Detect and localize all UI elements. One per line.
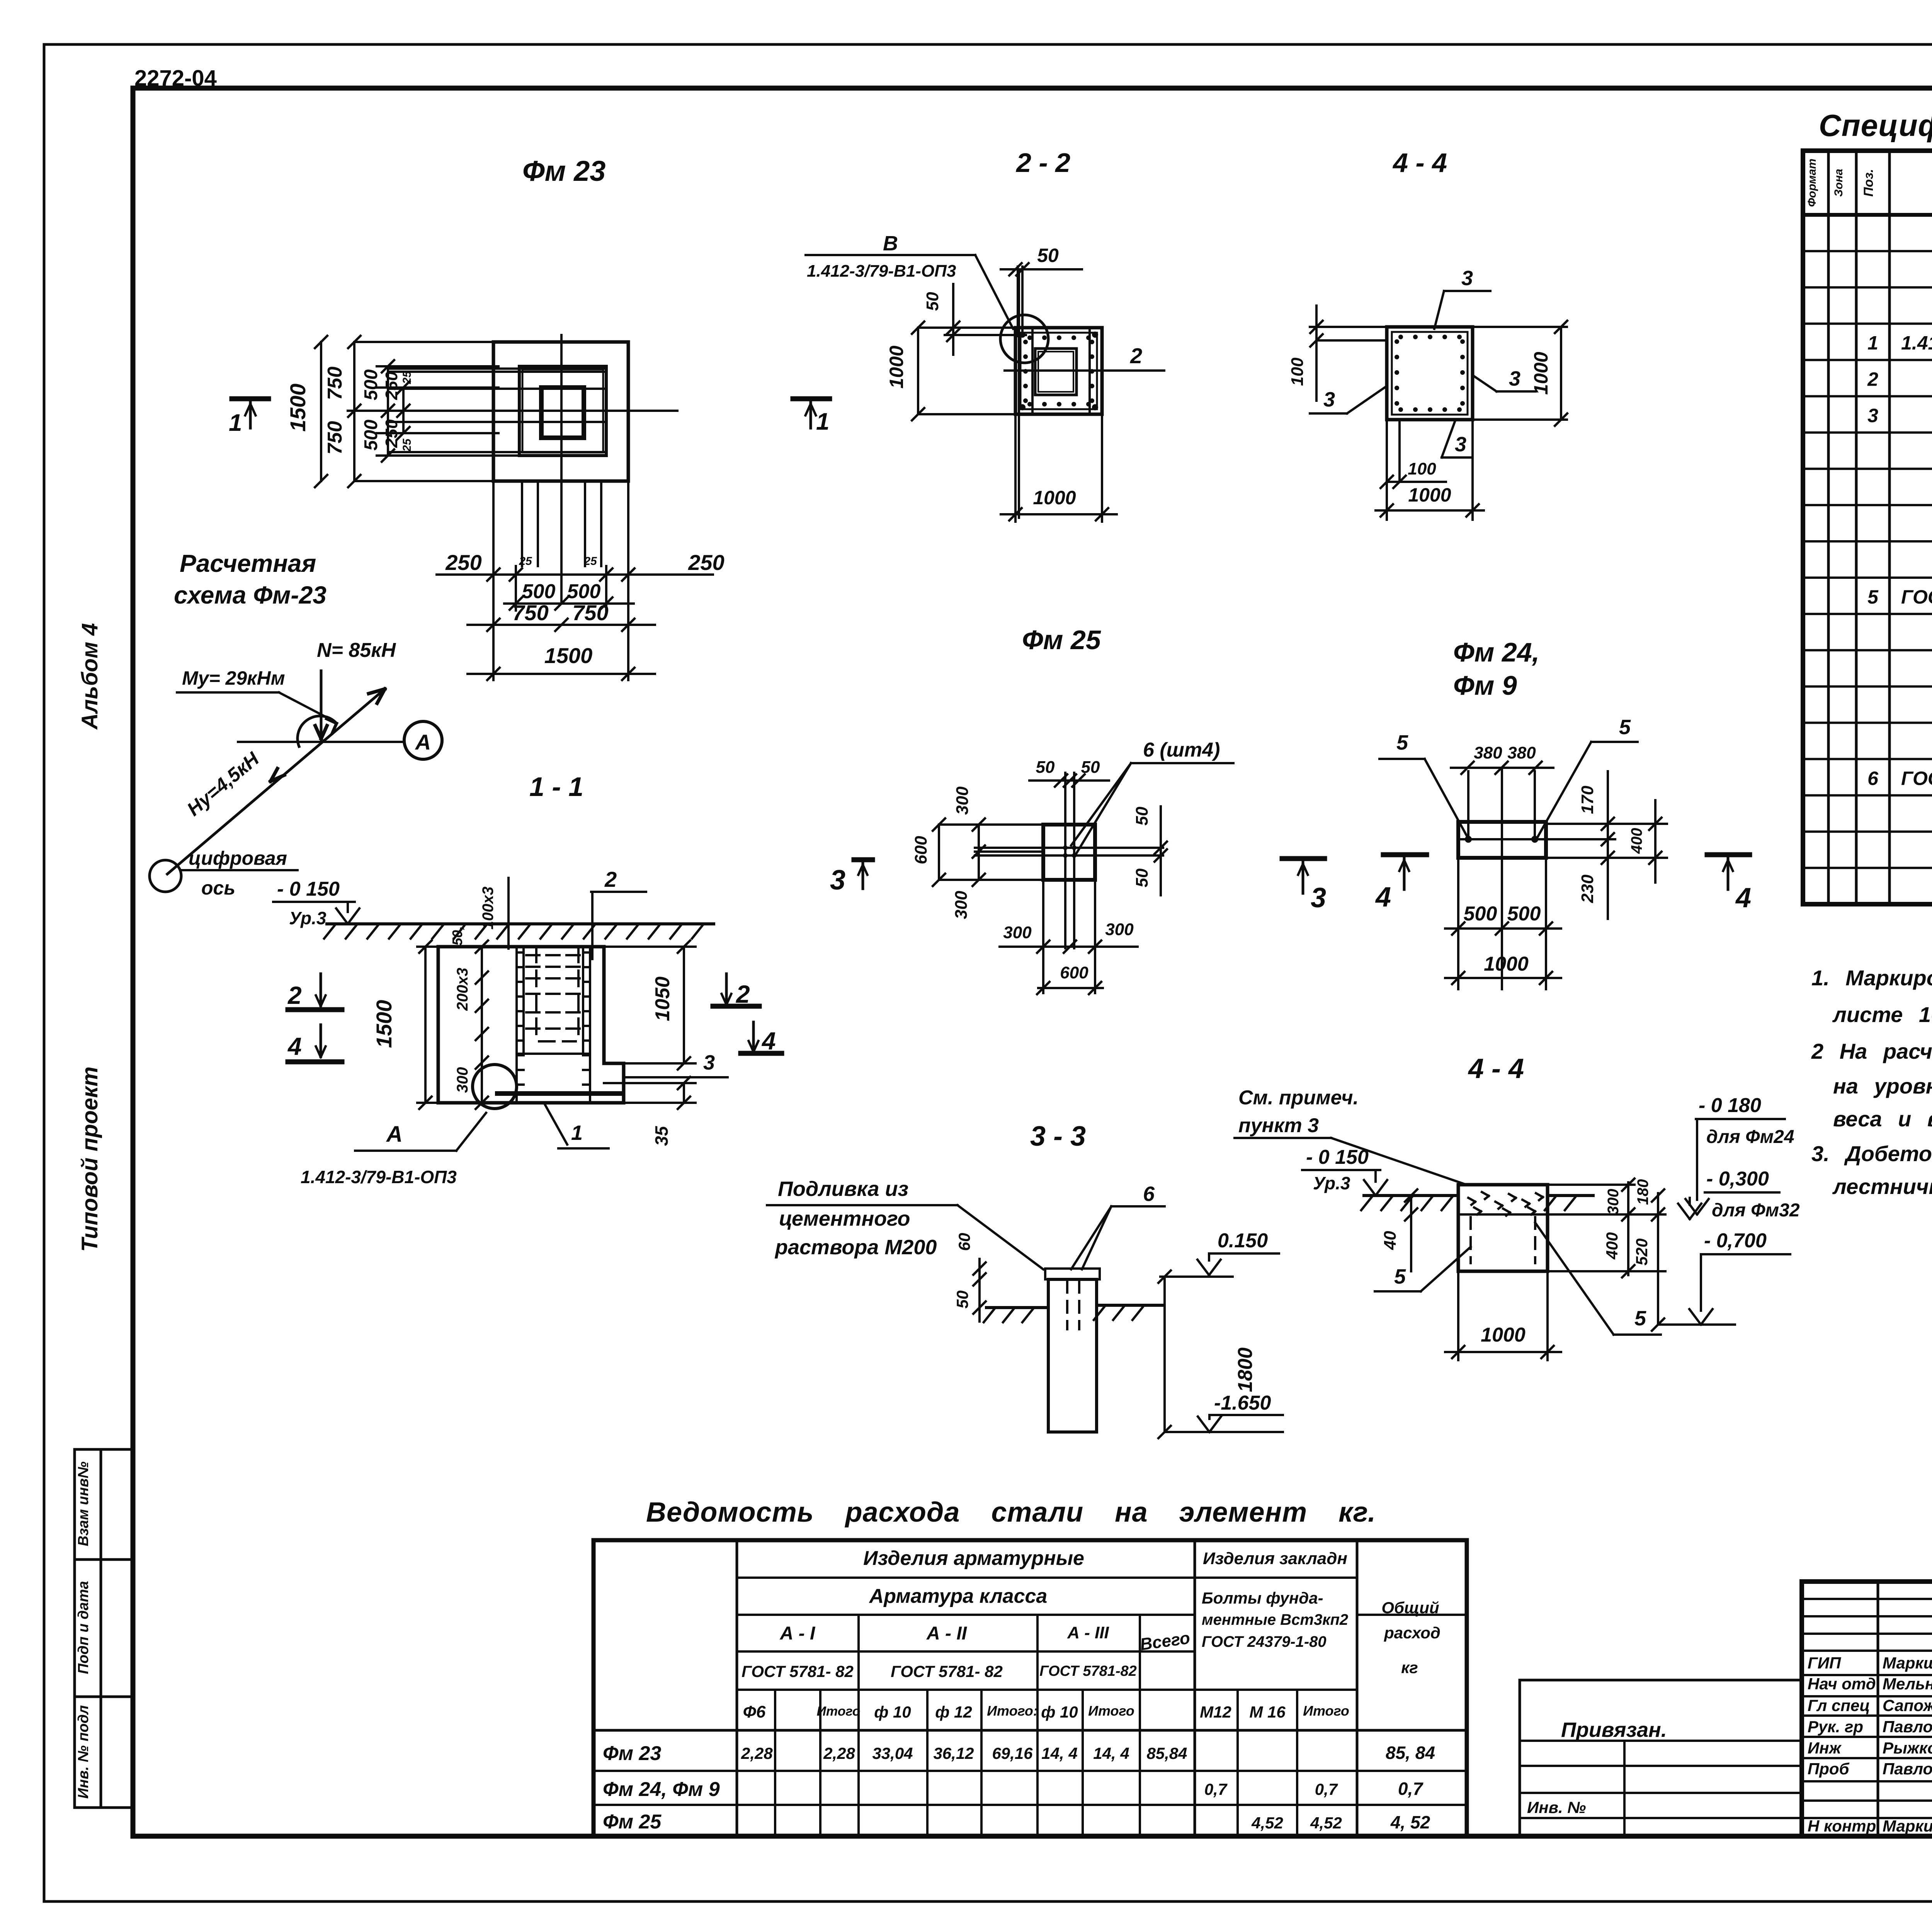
svg-text:4: 4 xyxy=(287,1032,302,1060)
svg-text:М12: М12 xyxy=(1200,1703,1231,1721)
svg-text:А - I: А - I xyxy=(780,1623,816,1644)
svg-text:100: 100 xyxy=(1288,357,1307,386)
svg-text:25: 25 xyxy=(583,555,597,568)
svg-text:250: 250 xyxy=(445,550,481,575)
svg-text:1000: 1000 xyxy=(1408,484,1451,506)
svg-text:Изделия закладн: Изделия закладн xyxy=(1203,1549,1347,1568)
svg-text:60: 60 xyxy=(955,1233,973,1251)
svg-text:2272-04: 2272-04 xyxy=(134,66,217,91)
svg-text:Нач отд: Нач отд xyxy=(1808,1675,1876,1693)
svg-text:Фм 25: Фм 25 xyxy=(603,1811,662,1833)
svg-text:3: 3 xyxy=(1509,367,1520,390)
svg-text:Н контр: Н контр xyxy=(1808,1817,1876,1835)
svg-text:3. Добетонирование произвест: 3. Добетонирование произвести после монт… xyxy=(1811,1141,1932,1166)
svg-text:300: 300 xyxy=(1605,1189,1622,1215)
svg-text:Инв. №: Инв. № xyxy=(1527,1798,1586,1816)
svg-text:ГОСТ 24379.1- 80: ГОСТ 24379.1- 80 xyxy=(1901,767,1932,789)
svg-text:1000: 1000 xyxy=(1530,352,1552,395)
svg-text:1. Маркировочный план фундам: 1. Маркировочный план фундаментов дан на xyxy=(1811,966,1932,990)
svg-text:Инв. № подл: Инв. № подл xyxy=(75,1705,92,1799)
svg-text:50: 50 xyxy=(1133,868,1151,887)
svg-text:520: 520 xyxy=(1633,1238,1651,1265)
svg-text:Гл спец: Гл спец xyxy=(1808,1696,1870,1714)
svg-text:Формат: Формат xyxy=(1806,158,1818,207)
svg-text:25: 25 xyxy=(401,438,413,452)
svg-text:50: 50 xyxy=(1037,245,1059,266)
svg-text:ф 10: ф 10 xyxy=(1041,1703,1078,1721)
svg-text:Расчетная: Расчетная xyxy=(180,549,316,577)
svg-text:Общий: Общий xyxy=(1381,1599,1439,1617)
svg-text:цифровая: цифровая xyxy=(189,847,287,869)
svg-text:ф 12: ф 12 xyxy=(935,1703,972,1721)
svg-text:Мельников: Мельников xyxy=(1883,1675,1932,1693)
svg-text:750: 750 xyxy=(324,367,346,400)
svg-text:600: 600 xyxy=(912,836,930,864)
svg-text:500: 500 xyxy=(1507,903,1541,925)
svg-text:1500: 1500 xyxy=(372,1000,396,1048)
svg-text:6: 6 xyxy=(1867,767,1879,789)
svg-text:Павлова: Павлова xyxy=(1883,1718,1932,1736)
svg-text:85, 84: 85, 84 xyxy=(1386,1743,1435,1763)
svg-text:1.412-3/79-В1-ОП3: 1.412-3/79-В1-ОП3 xyxy=(807,262,956,281)
svg-text:ГОСТ 5781- 82: ГОСТ 5781- 82 xyxy=(891,1662,1003,1680)
svg-text:4: 4 xyxy=(761,1027,776,1055)
svg-text:кг: кг xyxy=(1401,1658,1418,1677)
svg-text:ГОСТ 5781-82: ГОСТ 5781-82 xyxy=(1039,1663,1137,1679)
svg-text:3: 3 xyxy=(703,1051,715,1074)
svg-text:200х3: 200х3 xyxy=(454,968,471,1011)
svg-text:Болты фунда-: Болты фунда- xyxy=(1202,1589,1323,1607)
svg-text:- 0,300: - 0,300 xyxy=(1706,1168,1769,1190)
svg-text:на уровне верха фундамента,: на уровне верха фундамента, без учета со… xyxy=(1833,1074,1932,1098)
svg-text:1: 1 xyxy=(1867,332,1878,354)
svg-text:Типовой проект: Типовой проект xyxy=(77,1066,102,1252)
svg-text:А: А xyxy=(415,730,431,754)
svg-text:1: 1 xyxy=(229,410,242,436)
svg-text:50: 50 xyxy=(1081,758,1100,777)
svg-text:Фм 23: Фм 23 xyxy=(603,1742,661,1765)
svg-text:400: 400 xyxy=(1628,828,1645,854)
svg-text:2: 2 xyxy=(604,867,617,891)
svg-text:750: 750 xyxy=(512,600,548,625)
svg-text:50: 50 xyxy=(923,292,942,311)
svg-text:для Фм32: для Фм32 xyxy=(1712,1200,1800,1221)
svg-text:1000: 1000 xyxy=(1481,1324,1526,1346)
svg-text:500: 500 xyxy=(361,420,381,451)
svg-text:-1.650: -1.650 xyxy=(1214,1392,1271,1414)
svg-text:380: 380 xyxy=(1474,743,1502,762)
svg-text:Спецификация фундамента Фм23: Спецификация фундамента Фм23; Фм24,Фм25 xyxy=(1819,108,1932,143)
svg-text:ГИП: ГИП xyxy=(1808,1654,1841,1672)
svg-text:Подп и дата: Подп и дата xyxy=(75,1581,92,1674)
svg-text:100х3: 100х3 xyxy=(480,886,497,929)
svg-text:Фм 25: Фм 25 xyxy=(1022,625,1101,655)
svg-text:2 - 2: 2 - 2 xyxy=(1015,148,1070,178)
svg-text:Ф6: Ф6 xyxy=(743,1702,766,1721)
svg-text:- 0 150: - 0 150 xyxy=(1306,1146,1369,1168)
svg-text:5: 5 xyxy=(1619,716,1631,739)
svg-text:300: 300 xyxy=(952,891,971,919)
svg-text:2,28: 2,28 xyxy=(741,1744,773,1762)
svg-text:Рыжкова: Рыжкова xyxy=(1883,1739,1932,1757)
svg-text:50: 50 xyxy=(1133,806,1151,825)
svg-text:5: 5 xyxy=(1396,731,1408,754)
svg-text:380: 380 xyxy=(1507,743,1536,762)
svg-text:170: 170 xyxy=(1578,786,1597,814)
svg-text:0.150: 0.150 xyxy=(1218,1230,1268,1252)
svg-text:2: 2 xyxy=(736,980,750,1008)
svg-text:5: 5 xyxy=(1867,586,1879,608)
svg-text:Павлова: Павлова xyxy=(1883,1760,1932,1778)
svg-text:1500: 1500 xyxy=(544,643,593,668)
svg-text:Изделия арматурные: Изделия арматурные xyxy=(863,1547,1084,1570)
svg-text:3 - 3: 3 - 3 xyxy=(1030,1121,1086,1152)
svg-text:пункт 3: пункт 3 xyxy=(1238,1114,1319,1137)
svg-text:Ур.3: Ур.3 xyxy=(289,908,327,928)
svg-text:50: 50 xyxy=(953,1291,971,1309)
svg-text:1000: 1000 xyxy=(886,345,907,388)
svg-text:Поз.: Поз. xyxy=(1861,169,1876,197)
svg-text:ментные Вст3кп2: ментные Вст3кп2 xyxy=(1202,1611,1348,1628)
svg-text:3: 3 xyxy=(1323,388,1335,411)
svg-text:4: 4 xyxy=(1375,882,1391,913)
svg-text:50: 50 xyxy=(1036,758,1055,777)
svg-text:250: 250 xyxy=(382,371,401,400)
svg-text:схема Фм-23: схема Фм-23 xyxy=(174,581,327,609)
svg-text:69,16: 69,16 xyxy=(992,1744,1033,1762)
svg-text:1: 1 xyxy=(571,1121,583,1145)
svg-text:А - III: А - III xyxy=(1067,1623,1109,1642)
svg-text:6 (шт4): 6 (шт4) xyxy=(1143,739,1220,761)
svg-text:Взам инв№: Взам инв№ xyxy=(75,1461,92,1546)
svg-text:ГОСТ 24379,1- 80: ГОСТ 24379,1- 80 xyxy=(1901,586,1932,608)
svg-text:3: 3 xyxy=(1867,405,1878,426)
svg-text:для Фм24: для Фм24 xyxy=(1706,1127,1794,1147)
svg-text:1.410-3 В.1: 1.410-3 В.1 xyxy=(1901,332,1932,354)
svg-text:300: 300 xyxy=(454,1067,471,1093)
svg-text:Фм 24,: Фм 24, xyxy=(1453,637,1539,667)
svg-text:4,52: 4,52 xyxy=(1251,1814,1283,1832)
svg-text:Арматура класса: Арматура класса xyxy=(869,1585,1048,1607)
svg-text:N= 85кН: N= 85кН xyxy=(317,639,396,662)
svg-text:1 - 1: 1 - 1 xyxy=(529,772,583,802)
svg-text:250: 250 xyxy=(382,419,401,448)
svg-text:2 На расчетной схеме указана: 2 На расчетной схеме указана нормативная… xyxy=(1811,1039,1932,1063)
svg-text:4 - 4: 4 - 4 xyxy=(1392,148,1447,178)
svg-text:Итого: Итого xyxy=(1088,1703,1134,1719)
svg-text:Подливка из: Подливка из xyxy=(778,1177,908,1201)
svg-text:3: 3 xyxy=(1311,883,1326,913)
svg-text:Проб: Проб xyxy=(1808,1760,1850,1778)
svg-text:Фм 9: Фм 9 xyxy=(1453,670,1517,701)
svg-text:14, 4: 14, 4 xyxy=(1093,1744,1129,1762)
svg-text:4 - 4: 4 - 4 xyxy=(1468,1053,1524,1084)
svg-text:14, 4: 14, 4 xyxy=(1041,1744,1077,1762)
svg-text:цементного: цементного xyxy=(779,1207,910,1230)
svg-text:25: 25 xyxy=(401,371,413,384)
svg-text:М 16: М 16 xyxy=(1249,1703,1286,1721)
svg-text:250: 250 xyxy=(688,550,724,575)
svg-text:180: 180 xyxy=(1634,1179,1651,1205)
svg-text:100: 100 xyxy=(1408,459,1436,478)
svg-text:Рук. гр: Рук. гр xyxy=(1808,1718,1863,1736)
svg-text:- 0,700: - 0,700 xyxy=(1704,1230,1767,1252)
svg-text:300: 300 xyxy=(953,786,972,815)
svg-text:ГОСТ 24379-1-80: ГОСТ 24379-1-80 xyxy=(1202,1633,1327,1650)
svg-text:ф 10: ф 10 xyxy=(874,1703,911,1721)
svg-text:6: 6 xyxy=(1143,1182,1155,1206)
svg-text:4: 4 xyxy=(1735,883,1751,913)
svg-text:0,7: 0,7 xyxy=(1204,1780,1228,1798)
svg-text:3: 3 xyxy=(830,865,845,896)
svg-text:500: 500 xyxy=(1464,903,1497,925)
svg-text:Фм 24, Фм 9: Фм 24, Фм 9 xyxy=(603,1778,720,1801)
svg-text:85,84: 85,84 xyxy=(1146,1744,1187,1762)
svg-text:А: А xyxy=(386,1122,403,1147)
svg-text:Маркин: Маркин xyxy=(1883,1817,1932,1835)
svg-text:См. примеч.: См. примеч. xyxy=(1238,1087,1359,1109)
svg-text:Зона: Зона xyxy=(1832,169,1845,197)
svg-text:35: 35 xyxy=(651,1126,672,1146)
svg-text:500: 500 xyxy=(522,580,556,603)
svg-text:400: 400 xyxy=(1603,1232,1621,1260)
svg-text:1000: 1000 xyxy=(1484,953,1529,975)
svg-text:Инж: Инж xyxy=(1808,1739,1842,1757)
svg-text:А - II: А - II xyxy=(926,1623,968,1644)
svg-text:ось: ось xyxy=(201,877,235,899)
svg-text:расход: расход xyxy=(1384,1624,1440,1642)
svg-text:1800: 1800 xyxy=(1234,1347,1257,1392)
svg-text:33,04: 33,04 xyxy=(872,1744,913,1762)
svg-text:Мy= 29кНм: Мy= 29кНм xyxy=(182,667,285,689)
svg-text:3: 3 xyxy=(1461,267,1473,290)
svg-text:лестничного марша: лестничного марша xyxy=(1832,1174,1932,1199)
svg-text:2: 2 xyxy=(287,981,302,1009)
svg-text:2,28: 2,28 xyxy=(823,1744,855,1762)
svg-text:листе 16: листе 16 xyxy=(1832,1002,1932,1027)
svg-text:500: 500 xyxy=(567,580,601,603)
svg-text:3: 3 xyxy=(1455,433,1466,456)
svg-text:2: 2 xyxy=(1867,369,1878,390)
svg-text:750: 750 xyxy=(572,600,608,625)
svg-text:5: 5 xyxy=(1634,1307,1646,1330)
svg-text:40: 40 xyxy=(1381,1231,1400,1250)
svg-text:0,7: 0,7 xyxy=(1315,1780,1338,1798)
svg-text:600: 600 xyxy=(1060,963,1088,982)
svg-text:раствора М200: раствора М200 xyxy=(774,1236,937,1259)
svg-text:Итого:: Итого: xyxy=(987,1703,1038,1719)
svg-text:- 0 180: - 0 180 xyxy=(1699,1094,1761,1117)
svg-text:Маркштеде: Маркштеде xyxy=(1883,1654,1932,1672)
svg-text:25: 25 xyxy=(519,555,532,568)
svg-text:Ведомость расхода стали на: Ведомость расхода стали на элемент кг. xyxy=(646,1497,1376,1528)
svg-text:В: В xyxy=(883,232,898,255)
svg-text:1000: 1000 xyxy=(1033,487,1076,509)
svg-text:300: 300 xyxy=(1105,920,1134,939)
svg-text:36,12: 36,12 xyxy=(933,1744,974,1762)
svg-text:веса и веса грунта на обреза: веса и веса грунта на обрезах xyxy=(1833,1107,1932,1131)
svg-text:Привязан.: Привязан. xyxy=(1561,1718,1667,1742)
svg-text:Сапожникова: Сапожникова xyxy=(1883,1696,1932,1714)
svg-text:1.412-3/79-В1-ОП3: 1.412-3/79-В1-ОП3 xyxy=(301,1167,457,1187)
svg-text:ГОСТ 5781- 82: ГОСТ 5781- 82 xyxy=(742,1662,854,1680)
svg-text:Итого: Итого xyxy=(1303,1703,1349,1719)
svg-text:5: 5 xyxy=(1394,1265,1406,1288)
svg-text:4, 52: 4, 52 xyxy=(1390,1812,1430,1832)
svg-text:2: 2 xyxy=(1130,344,1142,368)
svg-text:500: 500 xyxy=(361,369,381,400)
svg-text:50,: 50, xyxy=(449,926,465,946)
svg-text:4,52: 4,52 xyxy=(1310,1814,1342,1832)
svg-text:1: 1 xyxy=(816,408,829,435)
svg-text:Альбом 4: Альбом 4 xyxy=(77,623,102,730)
svg-text:Ур.3: Ур.3 xyxy=(1313,1173,1350,1193)
svg-text:Фм 23: Фм 23 xyxy=(522,155,605,187)
svg-text:300: 300 xyxy=(1003,923,1032,942)
svg-text:750: 750 xyxy=(324,421,346,455)
svg-text:0,7: 0,7 xyxy=(1398,1779,1423,1799)
svg-text:- 0 150: - 0 150 xyxy=(277,878,340,900)
svg-text:230: 230 xyxy=(1578,874,1597,903)
svg-text:1050: 1050 xyxy=(651,976,674,1021)
svg-text:Итого: Итого xyxy=(816,1704,860,1719)
svg-text:1500: 1500 xyxy=(286,384,310,432)
